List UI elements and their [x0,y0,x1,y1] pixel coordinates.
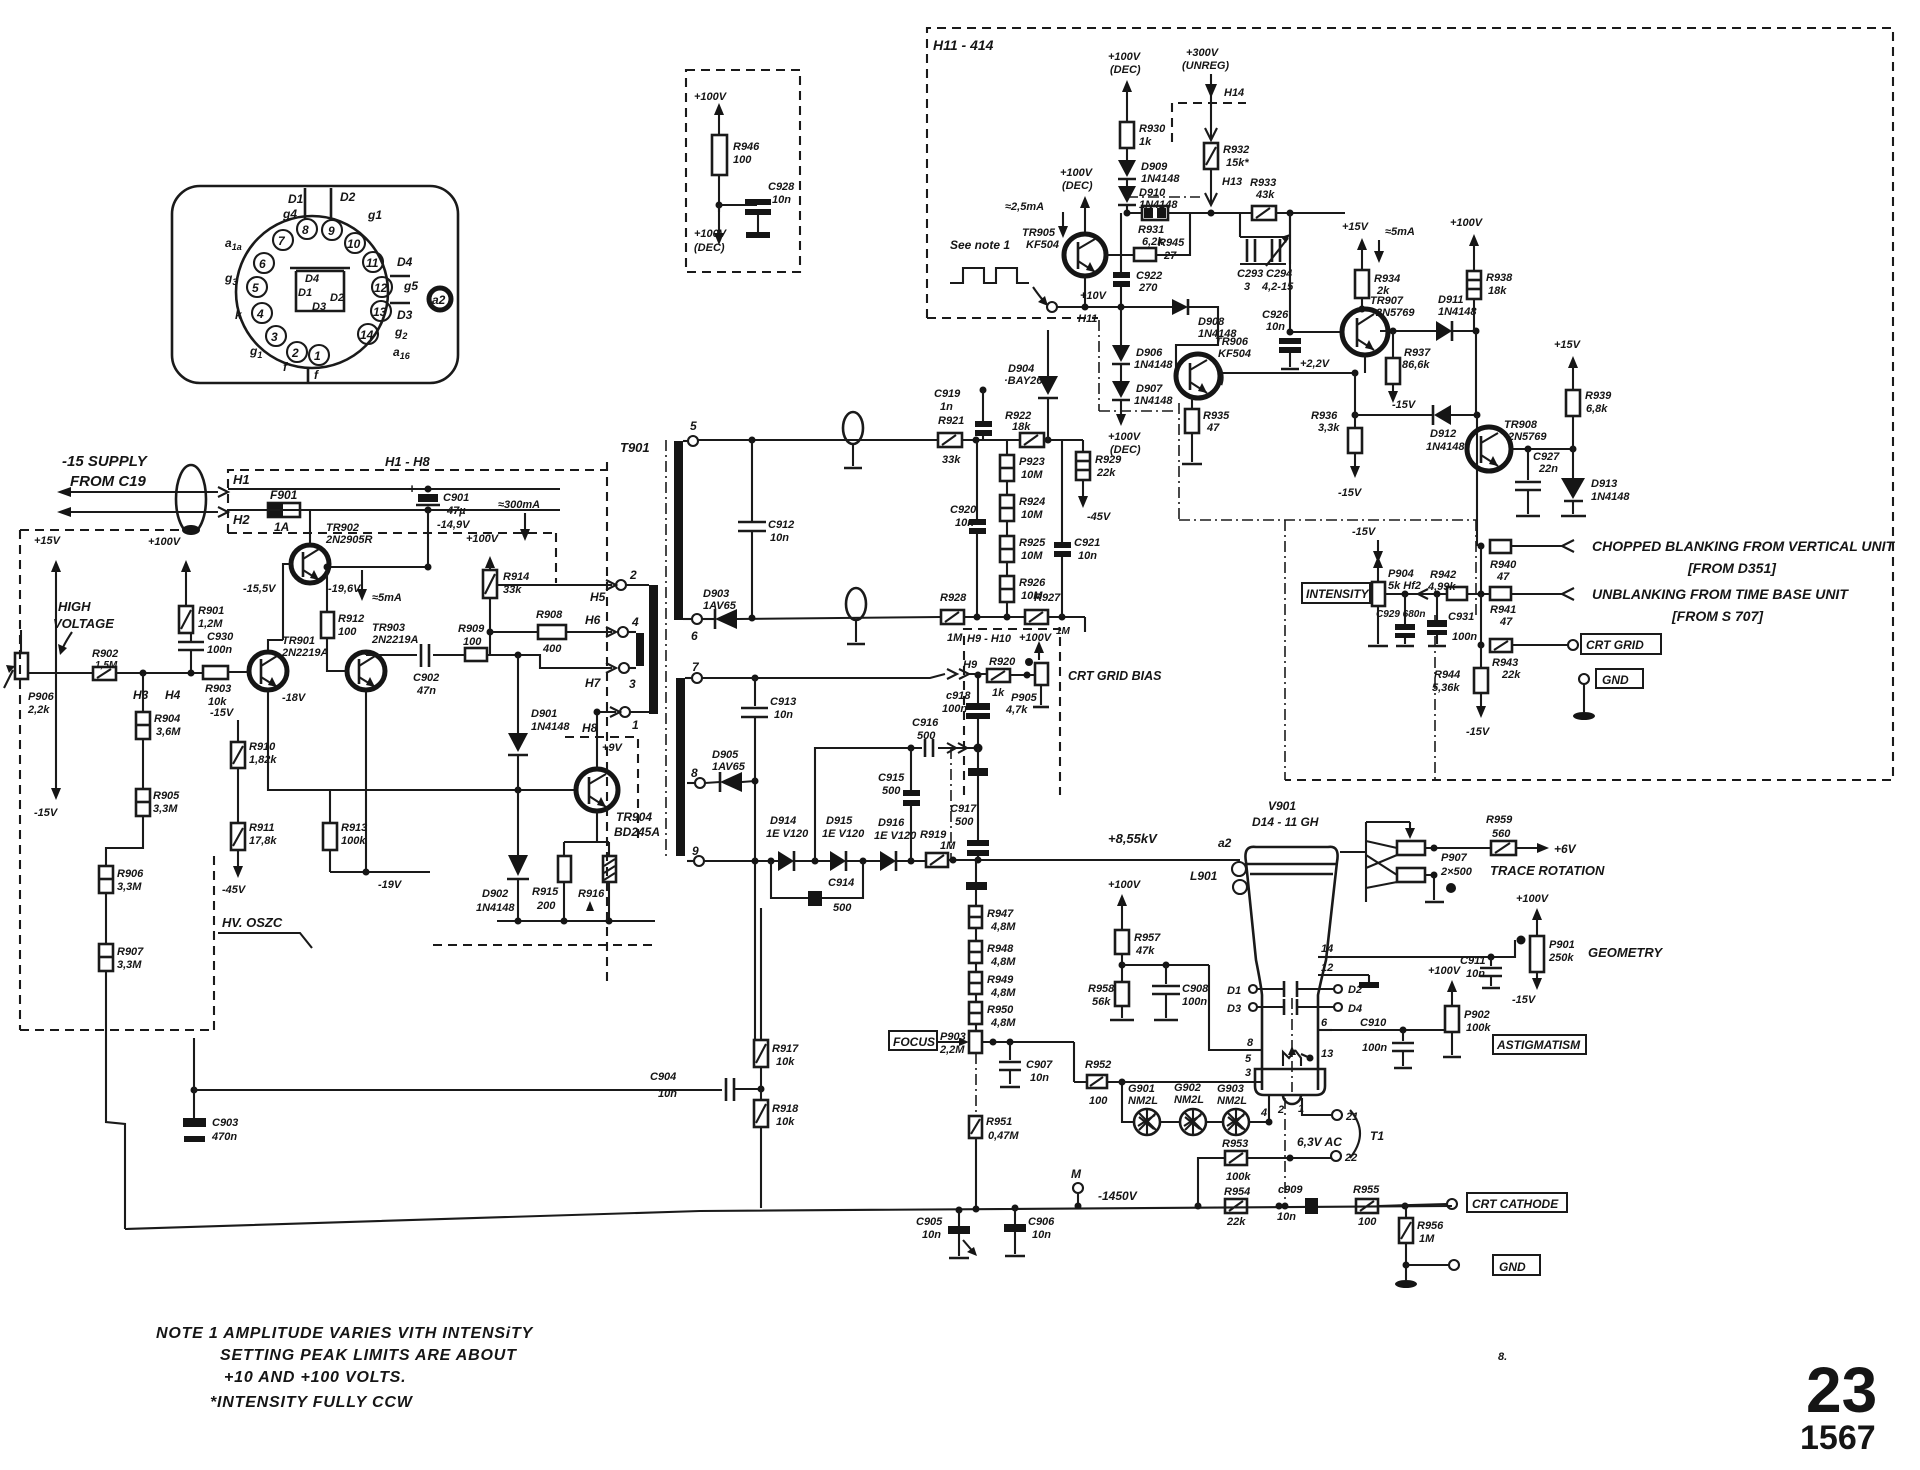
wire R914 down [489,598,491,655]
capacitor C904 [650,1071,761,1101]
resistor R929 [1076,440,1122,523]
resistor R944 [1432,645,1491,738]
svg-text:+100V: +100V [466,533,500,545]
wire H6 row [490,631,612,633]
capacitor C905 [916,1207,977,1259]
svg-text:R955: R955 [1353,1184,1380,1196]
wire TR904 collector [597,712,616,769]
label HV OSZC [218,915,312,948]
heater G902 [1174,1082,1206,1136]
svg-text:3,3k: 3,3k [1318,422,1340,434]
resistor R908 [536,609,566,655]
svg-text:10M: 10M [1021,550,1043,562]
transistor TR908 [1467,419,1547,471]
svg-text:D1: D1 [288,192,304,206]
svg-text:3,3M: 3,3M [153,803,178,815]
wire rail [1480,546,1482,594]
primary bar [649,585,658,714]
svg-text:R945: R945 [1158,237,1185,249]
svg-text:R932: R932 [1223,144,1249,156]
resistor R934 [1342,221,1400,313]
label 5mA [1374,226,1415,263]
ferrite bead [176,465,206,535]
pin 6 [254,253,274,273]
svg-text:R902: R902 [92,648,118,660]
svg-text:R959: R959 [1486,814,1513,826]
svg-text:TR903: TR903 [372,622,405,634]
diode D903 [702,588,941,629]
transistor TR903 [347,622,419,690]
svg-text:2N2905R: 2N2905R [325,534,373,546]
terminal 21 [1332,1110,1358,1123]
svg-text:500: 500 [882,785,901,797]
wire bottom long [125,1206,1452,1229]
svg-text:8.: 8. [1498,1351,1507,1363]
svg-text:R958: R958 [1088,983,1115,995]
svg-text:D4: D4 [305,273,319,285]
capacitor C921 [1054,440,1100,617]
transistor TR904 [576,769,660,839]
svg-text:[FROM S 707]: [FROM S 707] [1671,608,1764,624]
svg-text:GND: GND [1499,1260,1526,1274]
svg-text:H6: H6 [585,613,601,627]
resistor R915 [532,856,571,921]
pin 1 [1298,1098,1332,1115]
divider chain bar [966,860,987,906]
svg-text:3: 3 [1245,1067,1251,1079]
capacitor C906 [1004,1205,1055,1257]
pin 4 [1260,1095,1269,1122]
pin 6 [683,614,702,643]
svg-text:-15 SUPPLY: -15 SUPPLY [62,453,149,470]
svg-text:M: M [1071,1167,1082,1181]
svg-text:D2: D2 [340,190,356,204]
resistor R936 [1311,373,1363,499]
CRT axis [1291,998,1293,1092]
svg-text:HV. OSZC: HV. OSZC [222,915,283,930]
svg-text:8: 8 [302,223,309,237]
svg-text:100k: 100k [1466,1022,1491,1034]
svg-text:V901: V901 [1268,799,1296,813]
svg-text:FROM C19: FROM C19 [70,473,147,490]
spark gap top [843,412,863,468]
svg-text:100: 100 [1358,1216,1377,1228]
svg-text:4: 4 [256,307,264,321]
svg-text:R952: R952 [1085,1059,1111,1071]
svg-text:-19,6V: -19,6V [328,583,362,595]
svg-text:18k: 18k [1012,421,1031,433]
svg-text:33k: 33k [942,454,961,466]
diode D910 [1118,179,1178,213]
svg-text:6,3V AC: 6,3V AC [1297,1135,1342,1149]
svg-text:C926: C926 [1262,309,1289,321]
svg-text:INTENSITY: INTENSITY [1306,587,1370,601]
svg-text:R913: R913 [341,822,367,834]
svg-text:+100V: +100V [694,228,728,240]
pot P904 [1368,556,1421,646]
svg-text:C911: C911 [1460,955,1485,967]
svg-text:1,82k: 1,82k [249,754,277,766]
wire TR902 emitter [309,510,311,545]
svg-text:TR907: TR907 [1370,295,1404,307]
capacitor C917 [950,748,989,860]
resistor R904 [136,673,181,739]
svg-text:R954: R954 [1224,1186,1250,1198]
svg-text:47k: 47k [1135,945,1155,957]
svg-text:R908: R908 [536,609,563,621]
pin 7 [685,660,702,683]
svg-text:1N4148: 1N4148 [1591,491,1630,503]
label -45V [222,850,247,896]
loop C916 row [815,717,978,861]
svg-text:g1: g1 [367,208,382,222]
svg-text:2: 2 [291,346,299,360]
svg-text:R953: R953 [1222,1138,1248,1150]
svg-text:14: 14 [1321,943,1333,955]
resistor R922 [1005,410,1044,447]
wire D911 row [1380,330,1476,332]
svg-text:10M: 10M [1021,590,1043,602]
terminal a2 [429,288,451,310]
svg-text:TR904: TR904 [616,810,652,824]
wire TR902 collector [328,566,428,568]
terminal 22 [1331,1151,1357,1164]
svg-text:C906: C906 [1028,1216,1055,1228]
svg-text:D1: D1 [1227,985,1241,997]
resistor R926 [1000,562,1046,617]
svg-text:H2: H2 [233,512,250,527]
resistor R952 [1074,1042,1122,1107]
svg-text:15k*: 15k* [1226,157,1249,169]
svg-text:1n: 1n [940,401,953,413]
svg-text:c909: c909 [1278,1184,1303,1196]
label +100V DEC bottom [1108,400,1142,456]
svg-text:C294: C294 [1266,268,1292,280]
resistor R914 [483,570,529,598]
svg-text:22k: 22k [1096,467,1116,479]
trace rotation block [1340,822,1491,902]
svg-text:T1: T1 [1370,1129,1384,1143]
resistor R949 [969,963,1016,999]
resistor R901 [179,605,224,633]
pin 3 [266,326,286,346]
svg-text:5,36k: 5,36k [1432,682,1460,694]
svg-text:D14 - 11 GH: D14 - 11 GH [1252,815,1319,829]
wire supply line H1 [57,487,228,497]
svg-text:12: 12 [1321,962,1333,974]
svg-text:8: 8 [691,766,698,780]
pot R932 [1204,143,1249,169]
svg-text:500: 500 [917,730,936,742]
CRT base [1255,1069,1325,1104]
svg-text:1,2M: 1,2M [198,618,223,630]
svg-text:-15V: -15V [34,807,59,819]
wire TR902 base [268,564,292,652]
wiper row [1385,593,1490,595]
wire pin3 row [1122,1081,1262,1083]
wire to TR901 base [228,671,249,673]
svg-text:D2: D2 [1348,984,1362,996]
svg-text:P901: P901 [1549,939,1575,951]
svg-text:1M: 1M [1419,1233,1435,1245]
svg-text:6: 6 [1321,1017,1328,1029]
resistor R946 [712,135,760,175]
label P907 [1440,852,1473,893]
CRT GRID output [1512,634,1661,654]
svg-text:10n: 10n [772,194,791,206]
svg-text:-15,5V: -15,5V [243,583,277,595]
svg-text:6,8k: 6,8k [1586,403,1608,415]
svg-text:R907: R907 [117,946,144,958]
resistor R959 [1486,814,1577,856]
svg-text:10n: 10n [1466,968,1485,980]
svg-text:D906: D906 [1136,347,1163,359]
svg-text:-45V: -45V [222,884,247,896]
svg-text:See note 1: See note 1 [950,238,1010,252]
resistor R917 [754,908,799,1068]
wire H1 [228,488,560,490]
svg-text:5: 5 [1245,1053,1252,1065]
svg-text:P906: P906 [28,691,55,703]
svg-text:6: 6 [691,629,698,643]
transistor TR905 [1022,227,1106,276]
svg-text:1: 1 [314,349,321,363]
see note 1 [950,238,1048,306]
svg-text:D904: D904 [1008,363,1034,375]
capacitor C920 [950,440,986,621]
pin 12 [1318,962,1379,988]
svg-text:-15V: -15V [1338,487,1363,499]
svg-text:8: 8 [1247,1037,1254,1049]
svg-text:4: 4 [631,615,639,629]
svg-text:+15V: +15V [34,535,62,547]
svg-text:NM2L: NM2L [1128,1095,1158,1107]
resistor R930 [1120,122,1166,148]
svg-text:1: 1 [632,718,639,732]
svg-text:100: 100 [1089,1095,1108,1107]
capacitor C922 [1085,213,1162,307]
svg-text:1N4148: 1N4148 [1134,359,1173,371]
svg-text:D903: D903 [703,588,729,600]
wire TR903 emitter [365,690,367,872]
resistor R928 [940,592,967,644]
svg-text:10n: 10n [1277,1211,1296,1223]
svg-text:4: 4 [1260,1107,1267,1119]
diode D901 [508,652,570,791]
svg-text:R938: R938 [1486,272,1513,284]
svg-text:R909: R909 [458,623,485,635]
resistor R905 [136,739,180,816]
resistor R909 [458,623,487,661]
svg-text:C910: C910 [1360,1017,1387,1029]
svg-text:+15V: +15V [1554,339,1582,351]
pin 3 [619,663,636,691]
svg-text:D908: D908 [1198,316,1225,328]
resistor R921 [938,415,964,466]
inner rect [296,271,344,311]
svg-text:10k: 10k [776,1116,795,1128]
svg-text:R901: R901 [198,605,224,617]
wire H2 [228,509,268,511]
svg-text:4,7k: 4,7k [1005,704,1028,716]
svg-text:1AV65: 1AV65 [712,761,746,773]
svg-text:KF504: KF504 [1218,348,1251,360]
dashed box R946/C928 [686,70,800,272]
resistor R919 [920,829,956,867]
svg-text:H5: H5 [590,590,606,604]
diode D908 [1172,299,1237,376]
pot P905 [1005,658,1049,716]
svg-text:R926: R926 [1019,577,1046,589]
svg-text:+100V: +100V [1019,632,1053,644]
diode D906 [1112,307,1173,371]
svg-text:R911: R911 [249,822,274,834]
text -15 supply from C19 [62,453,149,490]
svg-text:R914: R914 [503,571,529,583]
svg-text:SETTING PEAK LIMITS ARE AB: SETTING PEAK LIMITS ARE ABOUT [220,1347,517,1364]
svg-text:86,6k: 86,6k [1402,359,1430,371]
svg-text:100: 100 [463,636,482,648]
svg-text:H13: H13 [1222,176,1242,188]
svg-text:≈5mA: ≈5mA [372,592,402,604]
pot chain P923 [1000,440,1045,481]
svg-text:C928: C928 [768,181,795,193]
svg-text:22n: 22n [1538,463,1558,475]
wire +2.2V row [1220,358,1359,377]
svg-text:R903: R903 [205,683,231,695]
capacitor C928 [745,181,795,238]
svg-text:D901: D901 [531,708,557,720]
svg-text:2N5769: 2N5769 [1375,307,1415,319]
svg-text:R951: R951 [986,1116,1012,1128]
wire row 208 [1127,212,1345,214]
svg-text:10n: 10n [1030,1072,1049,1084]
dashed inner lines [1099,320,1476,780]
svg-text:H3: H3 [133,688,149,702]
resistor R939 [1554,339,1612,449]
diode D904 [1004,330,1058,440]
svg-text:(DEC): (DEC) [1110,64,1141,76]
svg-text:H8: H8 [582,721,598,735]
label +100V [148,536,191,606]
svg-text:R924: R924 [1019,496,1045,508]
svg-text:-15V: -15V [1512,994,1537,1006]
svg-text:500: 500 [955,816,974,828]
svg-text:R946: R946 [733,141,760,153]
svg-text:C903: C903 [212,1117,238,1129]
svg-text:C930: C930 [207,631,234,643]
pin 3 [1245,1067,1251,1079]
svg-text:1N4148: 1N4148 [1141,173,1180,185]
svg-text:R916: R916 [578,888,605,900]
resistor R913 [323,790,367,872]
svg-text:R928: R928 [940,592,967,604]
svg-text:-18V: -18V [282,692,307,704]
svg-text:D902: D902 [482,888,508,900]
svg-text:5: 5 [690,419,697,433]
svg-text:4,8M: 4,8M [990,956,1016,968]
svg-text:6: 6 [259,257,266,271]
svg-text:3: 3 [271,330,278,344]
wire pin8 feed [1209,965,1262,1050]
svg-text:C920: C920 [950,504,977,516]
arrow down +100V DEC [694,205,728,254]
svg-text:R941: R941 [1490,604,1516,616]
svg-text:10n: 10n [770,532,789,544]
svg-text:G901: G901 [1128,1083,1155,1095]
svg-text:56k: 56k [1092,996,1111,1008]
svg-text:C922: C922 [1136,270,1162,282]
svg-text:D1: D1 [298,287,312,299]
svg-text:R920: R920 [989,656,1016,668]
svg-text:10n: 10n [922,1229,941,1241]
svg-text:NM2L: NM2L [1174,1094,1204,1106]
resistor R938 [1450,217,1513,331]
svg-text:T901: T901 [620,440,650,455]
dashed border left of transformer [606,462,608,985]
svg-text:R939: R939 [1585,390,1612,402]
svg-text:C914: C914 [828,877,854,889]
capacitor C926 [1262,213,1342,369]
svg-text:GND: GND [1602,673,1629,687]
svg-text:1N4148: 1N4148 [531,721,570,733]
ASTIGMATISM label [1493,1035,1586,1054]
svg-text:100n: 100n [1182,996,1207,1008]
svg-text:+: + [408,481,416,496]
svg-text:NM2L: NM2L [1217,1095,1247,1107]
svg-text:R912: R912 [338,613,364,625]
label -15V rail [1352,526,1383,563]
wire R946 to node [718,175,720,212]
wire to C928 [719,204,757,206]
svg-text:10: 10 [347,237,361,251]
svg-text:18k: 18k [1488,285,1507,297]
label +100V DEC top [1108,51,1142,122]
dashed heater box [228,470,607,583]
transistor TR907 [1342,295,1415,355]
svg-text:-1450V: -1450V [1098,1189,1138,1203]
heater G903 [1217,1083,1249,1136]
svg-text:+100V: +100V [1450,217,1484,229]
svg-text:+100V: +100V [1516,893,1550,905]
wire pin6 row [1318,1029,1445,1031]
label H13 [1127,169,1242,205]
resistor R931 [1138,206,1168,248]
svg-text:R929: R929 [1095,454,1122,466]
resistor R941 [1490,587,1516,628]
svg-text:G902: G902 [1174,1082,1201,1094]
svg-text:10n: 10n [1078,550,1097,562]
svg-text:+2,2V: +2,2V [1300,358,1331,370]
svg-text:R956: R956 [1417,1220,1444,1232]
pot P902 [1428,965,1491,1057]
svg-text:CRT CATHODE: CRT CATHODE [1472,1197,1559,1211]
wire pin7 row [702,674,945,678]
chopped blanking line [1511,538,1895,576]
svg-text:5k Hf2: 5k Hf2 [1388,580,1421,592]
svg-text:VOLTAGE: VOLTAGE [53,616,114,631]
svg-text:4,8M: 4,8M [990,987,1016,999]
pot P906 [4,630,60,716]
svg-text:+100V: +100V [1108,879,1142,891]
svg-text:ASTIGMATISM: ASTIGMATISM [1496,1038,1581,1052]
resistor R918 [754,1067,799,1208]
resistor R910 [210,707,277,768]
svg-text:+100V: +100V [1428,965,1462,977]
resistor R954 [1224,1186,1250,1228]
svg-text:C915: C915 [878,772,905,784]
svg-text:R957: R957 [1134,932,1161,944]
